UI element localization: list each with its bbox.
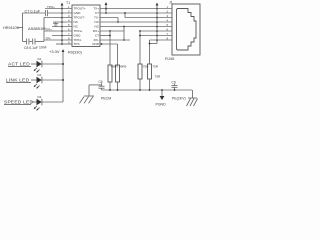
svg-text:D2: D2 <box>38 73 42 77</box>
svg-text:GND: GND <box>92 42 100 46</box>
svg-text:PGND: PGND <box>156 102 167 106</box>
svg-text:NC: NC <box>74 20 79 24</box>
svg-text:TPIN+: TPIN+ <box>74 29 83 33</box>
svg-text:75R: 75R <box>155 74 161 78</box>
svg-text:AS8851M: AS8851M <box>28 26 46 31</box>
svg-text:TPO+: TPO+ <box>47 5 55 9</box>
svg-text:PECM: PECM <box>101 97 111 101</box>
svg-text:D1: D1 <box>38 57 42 61</box>
svg-text:NC: NC <box>74 25 79 29</box>
svg-text:TPOUT+: TPOUT+ <box>74 7 86 11</box>
svg-text:TX-: TX- <box>94 16 99 20</box>
svg-text:C8 0.1uF: C8 0.1uF <box>24 46 38 50</box>
svg-text:75R: 75R <box>152 65 158 69</box>
svg-text:+3.3V: +3.3V <box>49 49 60 54</box>
svg-text:75R: 75R <box>143 65 149 69</box>
svg-text:TX+: TX+ <box>93 7 99 11</box>
svg-text:GND: GND <box>74 34 82 38</box>
svg-text:GND: GND <box>74 11 82 15</box>
svg-text:49R9: 49R9 <box>119 65 127 69</box>
svg-text:PE(2KV): PE(2KV) <box>172 97 186 101</box>
svg-text:RX+: RX+ <box>93 29 99 33</box>
svg-text:NC: NC <box>95 25 100 29</box>
svg-text:TPOUT-: TPOUT- <box>74 16 85 20</box>
svg-text:TPI+: TPI+ <box>46 27 53 31</box>
svg-text:CT: CT <box>95 11 99 15</box>
svg-text:C9: C9 <box>172 80 176 84</box>
svg-text:R9(330): R9(330) <box>68 50 82 54</box>
svg-text:TPS: TPS <box>74 42 80 46</box>
svg-text:TPI-: TPI- <box>46 36 52 40</box>
svg-text:NC: NC <box>95 20 100 24</box>
svg-text:RJ45: RJ45 <box>165 56 175 61</box>
svg-text:D3: D3 <box>38 95 42 99</box>
svg-text:CT: CT <box>95 34 99 38</box>
svg-text:C6: C6 <box>99 80 103 84</box>
svg-text:49R9: 49R9 <box>111 65 119 69</box>
svg-text:HR91105: HR91105 <box>3 26 19 30</box>
svg-text:10nF: 10nF <box>39 45 47 49</box>
